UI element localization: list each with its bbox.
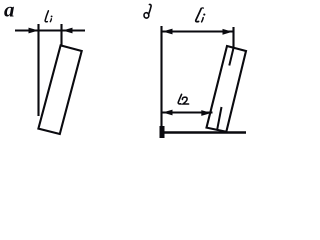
- svg-text:а: а: [4, 0, 15, 22]
